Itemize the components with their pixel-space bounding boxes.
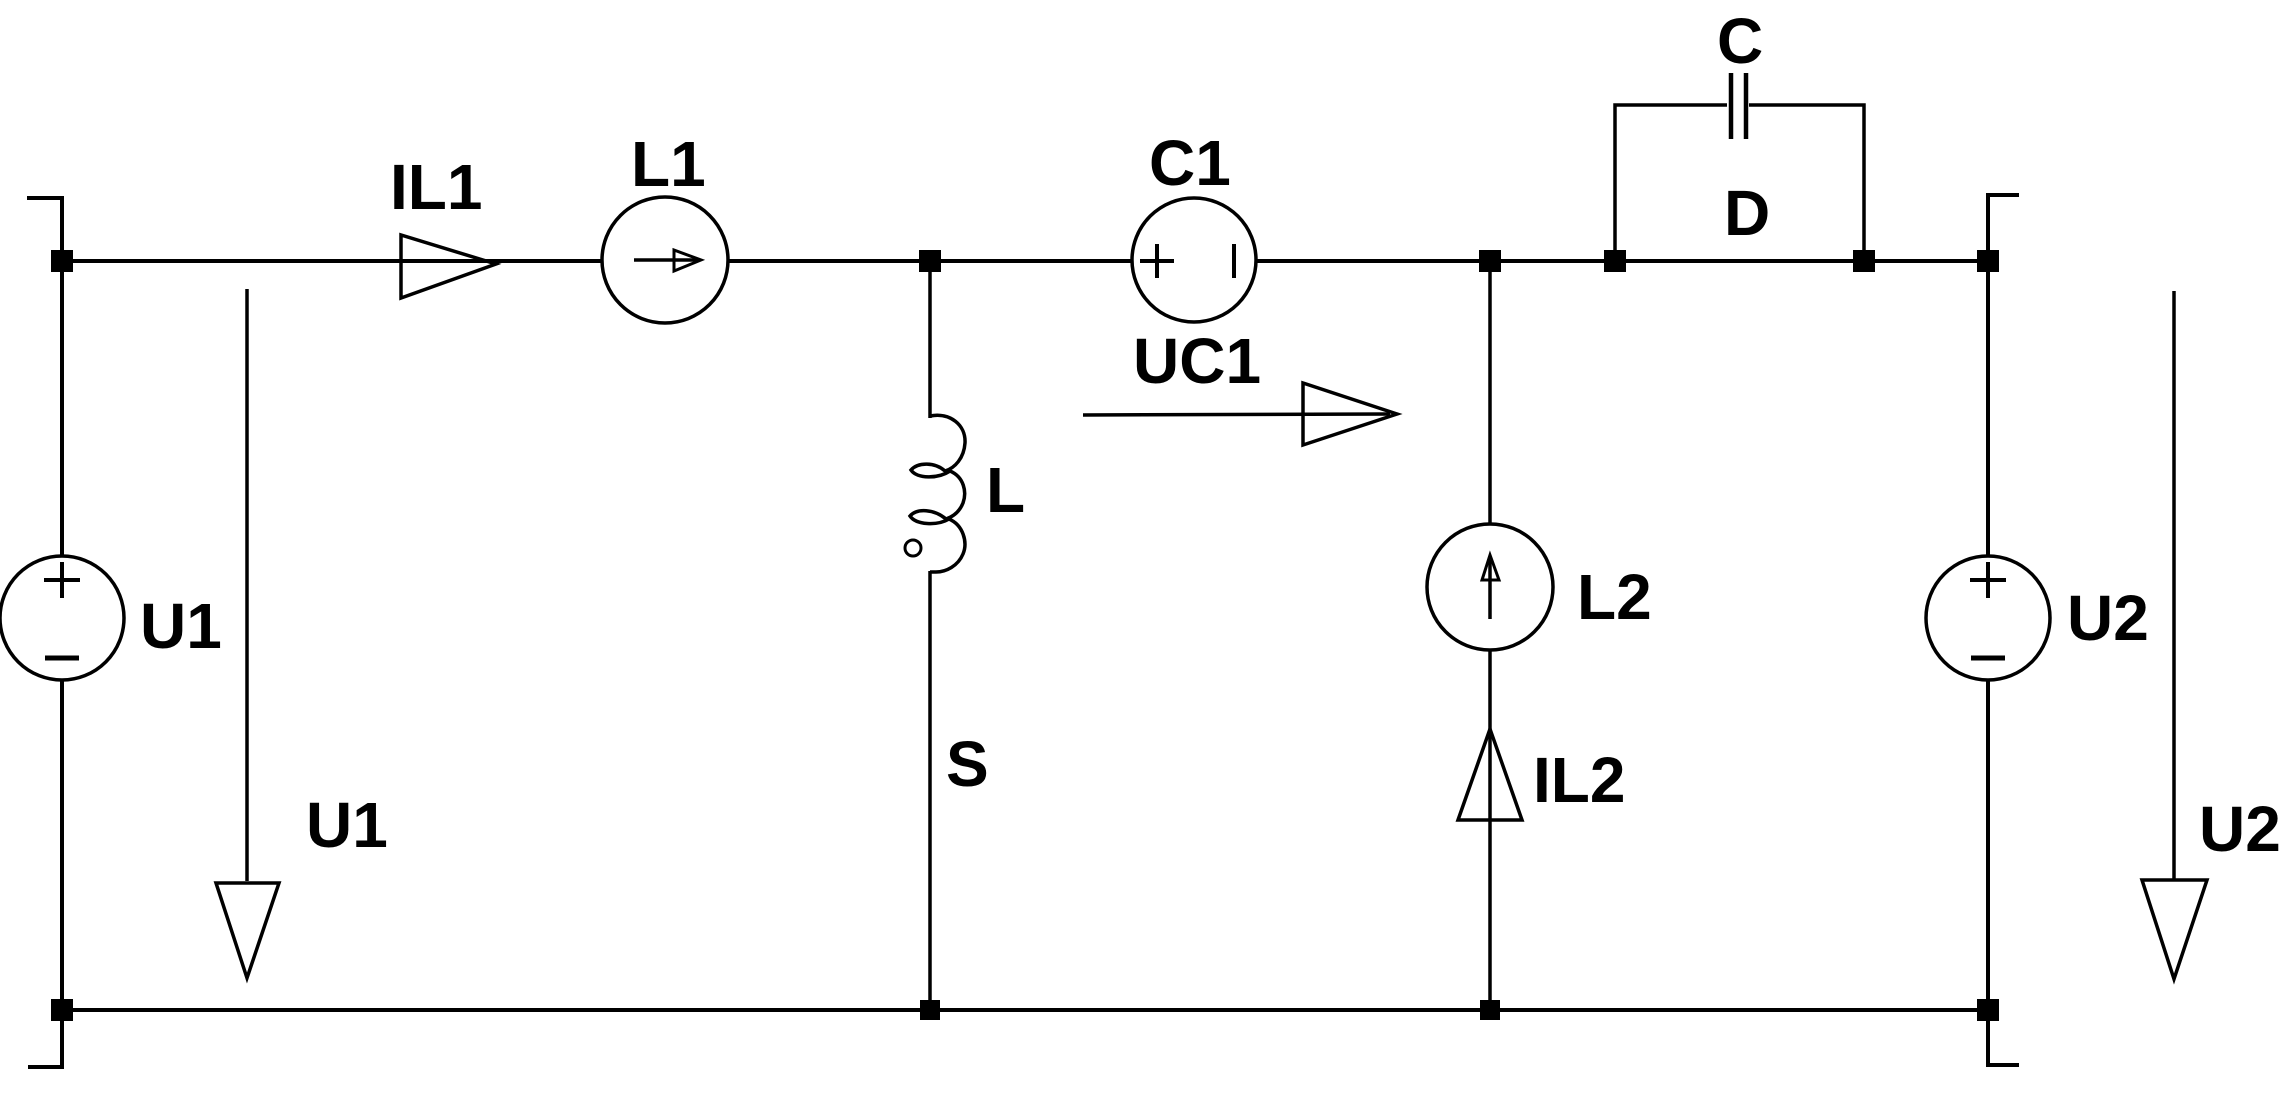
- L2 inner arrow: [1488, 560, 1492, 619]
- svg-text:L1: L1: [631, 128, 706, 200]
- svg-text:C1: C1: [1149, 127, 1231, 199]
- svg-text:U2: U2: [2067, 582, 2149, 654]
- svg-text:U1: U1: [306, 789, 388, 861]
- svg-text:D: D: [1724, 177, 1770, 249]
- svg-text:U1: U1: [140, 590, 222, 662]
- source circle U2: [1926, 556, 2050, 680]
- wire right branch (U2 column): [1986, 261, 1990, 1010]
- node bottom-left: [51, 999, 73, 1021]
- wire bottom rail: [62, 1008, 1988, 1012]
- wire switch S branch lower: [928, 571, 932, 1010]
- node D right: [1853, 250, 1875, 272]
- terminal bottom-right: [1988, 1010, 2019, 1065]
- inductor L terminal dot: [905, 540, 921, 556]
- arrow U2 (voltage arrow): [2172, 291, 2176, 880]
- source circle L1 (controlled current source): [602, 197, 728, 323]
- arrow IL1: [401, 235, 496, 298]
- svg-text:UC1: UC1: [1133, 325, 1261, 397]
- arrow U1 (voltage arrow): [245, 289, 249, 881]
- node bottom L2: [1480, 1000, 1500, 1020]
- capacitor C plates: [1729, 73, 1734, 139]
- node D left: [1604, 250, 1626, 272]
- terminal top-left: [27, 198, 62, 261]
- svg-text:L: L: [986, 454, 1025, 526]
- svg-text:U2: U2: [2199, 793, 2281, 865]
- U1 plus: [44, 578, 80, 582]
- node bottom-right: [1977, 999, 1999, 1021]
- terminal bottom-left: [28, 1010, 62, 1067]
- svg-text:IL2: IL2: [1533, 744, 1625, 816]
- arrow UC1: [1083, 414, 1390, 415]
- inductor L coil: [910, 415, 965, 572]
- node top-left: [51, 250, 73, 272]
- terminal top-right: [1988, 195, 2019, 261]
- arrow IL2: [1458, 729, 1522, 820]
- wire left branch (U1 column): [60, 261, 64, 1010]
- wire L2 column: [1488, 261, 1492, 1010]
- node top-middle: [919, 250, 941, 272]
- svg-text:IL1: IL1: [390, 151, 482, 223]
- U2 minus: [1971, 656, 2005, 661]
- wire middle branch upper (node to inductor): [928, 261, 932, 418]
- capacitor C bypass left leg: [1615, 105, 1727, 261]
- source circle U1: [0, 556, 124, 680]
- C1 plus: [1140, 259, 1174, 263]
- U2 plus: [1970, 578, 2006, 582]
- node top L2: [1479, 250, 1501, 272]
- node top-right: [1977, 250, 1999, 272]
- svg-text:S: S: [946, 728, 989, 800]
- node bottom-middle: [920, 1000, 940, 1020]
- L1 inner arrow: [634, 258, 699, 262]
- source circle L2 (controlled current source): [1427, 524, 1553, 650]
- C1 bar: [1232, 244, 1236, 278]
- U1 minus: [45, 656, 79, 661]
- wire top rail: [62, 259, 1988, 263]
- svg-text:C: C: [1717, 5, 1763, 77]
- svg-text:L2: L2: [1577, 561, 1652, 633]
- source circle C1 (controlled voltage source): [1132, 198, 1256, 322]
- capacitor C bypass right leg: [1749, 105, 1864, 261]
